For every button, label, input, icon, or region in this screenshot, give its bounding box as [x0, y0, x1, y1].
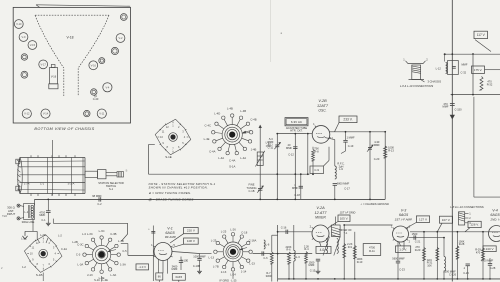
svg-text:C-1: C-1 [41, 218, 46, 222]
svg-text:S-1B: S-1B [36, 273, 43, 277]
svg-text:127 V: 127 V [419, 217, 428, 221]
svg-text:L-4A: L-4A [218, 156, 224, 160]
svg-text:R-28: R-28 [459, 242, 465, 246]
svg-text:C-25: C-25 [463, 271, 469, 275]
voltage box 1.0V [396, 246, 411, 253]
svg-text:C-4C: C-4C [205, 124, 211, 128]
wafer S-1D pointer [240, 248, 247, 250]
svg-text:L-6: L-6 [266, 243, 270, 247]
svg-text:6800 MMF: 6800 MMF [337, 181, 350, 185]
resistor R-32 470 [480, 77, 483, 91]
drum shaft and coupling [85, 171, 98, 177]
coil L-12 box with C-32 [444, 54, 446, 61]
svg-text:2-13: 2-13 [221, 270, 227, 274]
svg-text:L-8 & L-10 CONNECTIONS: L-8 & L-10 CONNECTIONS [400, 84, 434, 88]
tube location V-3 [111, 47, 118, 54]
svg-text:C-12: C-12 [288, 153, 294, 157]
tube location V-16 [89, 61, 98, 70]
tube location V-1 [120, 14, 127, 21]
svg-text:S-1E: S-1E [165, 155, 172, 159]
wire L-1 to top bus [34, 199, 36, 205]
B+ vertical line [451, 0, 453, 282]
capacitor C-16 [278, 231, 312, 233]
svg-text:IF GRID · L-25: IF GRID · L-25 [219, 278, 237, 282]
V-3 cathode lead [397, 242, 399, 259]
svg-text:B: B [126, 169, 128, 173]
oscillator bottom bus junctions [259, 199, 261, 201]
svg-text:C-23: C-23 [399, 267, 405, 271]
svg-text:MMF: MMF [462, 63, 468, 67]
capacitor C-6 [261, 251, 263, 255]
wafer S-1B top stubs [37, 239, 40, 243]
svg-text:1-4B: 1-4B [251, 148, 257, 152]
top RF bus wire [35, 198, 386, 200]
svg-text:C-20: C-20 [374, 157, 380, 161]
screen feed wire with C-21 [409, 237, 445, 239]
coil L-6 [264, 240, 265, 249]
svg-text:V-14: V-14 [43, 112, 49, 116]
svg-text:V-16: V-16 [51, 75, 57, 79]
svg-text:1-3A: 1-3A [120, 263, 126, 267]
resistor R-28 100K [456, 232, 458, 279]
svg-text:C-3B: C-3B [110, 232, 116, 236]
resistor R-10 100K [354, 232, 356, 279]
box 4700 R-11 [363, 244, 381, 256]
svg-text:C-2: C-2 [97, 202, 102, 206]
svg-text:1ST I-F GRID: 1ST I-F GRID [340, 211, 356, 215]
svg-text:V-1: V-1 [167, 227, 172, 231]
svg-text:OSC.: OSC. [318, 108, 326, 112]
wire L-1 bottom to chassis ground [32, 219, 34, 231]
voltage box 107V [440, 216, 453, 223]
svg-text:C-6: C-6 [263, 256, 268, 260]
svg-text:68 MMF: 68 MMF [92, 194, 102, 198]
svg-text:L-3C: L-3C [99, 229, 105, 233]
svg-text:R-6: R-6 [286, 248, 291, 252]
svg-text:5600 MMF: 5600 MMF [392, 257, 405, 261]
svg-text:117 V: 117 V [477, 33, 486, 37]
tube location V-6 [99, 58, 105, 64]
svg-text:L-8 & L-10 CONNECTIONS: L-8 & L-10 CONNECTIONS [450, 205, 484, 209]
sound IF block outline [473, 97, 475, 197]
svg-text:V-18: V-18 [67, 36, 74, 40]
svg-text:C-10B: C-10B [193, 264, 201, 268]
svg-text:R-11: R-11 [369, 249, 375, 253]
first IF grid top wire [410, 231, 500, 233]
voltage box 4.0V [316, 246, 331, 253]
svg-text:107 V.: 107 V. [442, 218, 451, 222]
svg-text:MMF: MMF [443, 104, 449, 108]
CRT funnel dashed outline V-18 [35, 14, 109, 16]
svg-text:R-4: R-4 [304, 247, 309, 251]
box C-9 [328, 147, 330, 161]
svg-text:V-16: V-16 [91, 63, 97, 67]
svg-text:C-28: C-28 [490, 266, 496, 270]
svg-text:L-25: L-25 [211, 239, 217, 243]
pentode V-4 [489, 226, 500, 242]
op voltage box 233V [339, 116, 357, 123]
capacitor C-18 1 MMF [300, 174, 302, 199]
svg-text:L-2: L-2 [58, 234, 62, 238]
matching transformer L-1 [24, 204, 35, 220]
svg-text:V-2A: V-2A [316, 206, 325, 210]
wafer S-1C pointer [108, 250, 116, 252]
svg-text:108 V: 108 V [187, 239, 196, 243]
svg-text:C-3: C-3 [76, 253, 81, 257]
svg-text:V-17: V-17 [41, 63, 47, 67]
svg-text:C-15: C-15 [310, 268, 316, 272]
capacitor C-15 1500 MMF [317, 242, 319, 258]
svg-text:R-20: R-20 [415, 248, 421, 252]
svg-text:S-1A: S-1A [229, 165, 235, 169]
svg-text:R-9: R-9 [348, 245, 353, 249]
svg-text:⊥ = CHASSIS GROUND: ⊥ = CHASSIS GROUND [360, 202, 389, 206]
svg-text:C-40: C-40 [93, 97, 99, 101]
svg-text:1-14: 1-14 [241, 270, 247, 274]
bus wire y=223 to wafer S-1C [53, 222, 127, 224]
capacitor C-19 1 MMF [345, 132, 347, 140]
svg-text:1000 MMF: 1000 MMF [193, 254, 206, 258]
svg-text:BOTTOM VIEW OF CHASSIS: BOTTOM VIEW OF CHASSIS [34, 127, 94, 131]
svg-text:C-19: C-19 [348, 144, 354, 148]
svg-text:220 V: 220 V [187, 229, 196, 233]
chassis ground arrow [24, 231, 26, 236]
svg-text:C-16: C-16 [281, 226, 287, 230]
wafer S-1A rotor pointer [243, 131, 251, 133]
svg-text:3 CHASSIS: 3 CHASSIS [428, 80, 442, 84]
svg-text:HTR. CKT.: HTR. CKT. [290, 128, 303, 132]
svg-text:L-7B: L-7B [213, 264, 219, 268]
svg-text:MIXER: MIXER [315, 215, 326, 219]
svg-text:L-3B: L-3B [118, 239, 124, 243]
svg-text:C-150: C-150 [454, 108, 462, 112]
svg-text:V-2: V-2 [119, 36, 123, 40]
voltage box 240V [483, 246, 496, 252]
fine tuning capacitor C-1B [258, 188, 262, 190]
mixer grid wire [253, 253, 313, 255]
svg-text:1500: 1500 [412, 232, 418, 236]
triode V-2A [312, 225, 329, 242]
RF choke L-9 with C-17 [334, 140, 336, 166]
svg-text:C-2A: C-2A [61, 247, 67, 251]
svg-text:S-1C · L-3E: S-1C · L-3E [94, 278, 108, 282]
svg-text:V-4: V-4 [105, 85, 109, 89]
svg-text:L-3A: L-3A [110, 273, 116, 277]
resistor R-31 10K AFC [436, 232, 438, 279]
L-8 L-10 connection symbol (top) [408, 63, 423, 65]
svg-text:⨁ = BRASS TUNING CORES: ⨁ = BRASS TUNING CORES [149, 197, 194, 201]
AGC top wire [445, 53, 500, 55]
long vertical feed line [277, 225, 279, 282]
tube location V-2 [116, 34, 125, 43]
mixer plate transformer T-1 [332, 225, 341, 237]
svg-text:L-9: L-9 [339, 167, 343, 171]
wire bus to T-1 [335, 217, 337, 226]
svg-text:L-7A: L-7A [24, 181, 30, 185]
svg-text:12 AT7: 12 AT7 [315, 211, 328, 215]
svg-text:L-26: L-26 [230, 227, 236, 231]
svg-text:1.0 V.: 1.0 V. [399, 247, 407, 251]
rotary wafer switch S-1E [155, 119, 191, 155]
capacitor C-1 4700 MMF with ground [47, 199, 49, 210]
svg-text:MMF: MMF [374, 143, 380, 147]
svg-text:233 V.: 233 V. [343, 117, 352, 121]
svg-text:TER: TER [2, 214, 7, 218]
svg-text:3300: 3300 [266, 274, 272, 278]
svg-text:R-10: R-10 [357, 260, 363, 264]
svg-text:175 V.: 175 V. [474, 68, 482, 72]
mixer plate resistor R-9 2.2K [343, 225, 345, 279]
svg-text:L-4B: L-4B [227, 107, 233, 111]
tube location V-12 [22, 109, 31, 118]
tube location V-10 [14, 20, 23, 29]
tube location V-7 [91, 89, 97, 95]
svg-text:2-13: 2-13 [87, 273, 93, 277]
svg-text:C-9: C-9 [314, 168, 319, 172]
resistor R-29 470 [482, 232, 484, 279]
svg-text:C-17: C-17 [344, 187, 350, 191]
svg-text:R-32: R-32 [487, 82, 493, 86]
svg-text:V-15: V-15 [30, 43, 36, 47]
svg-text:4700: 4700 [369, 246, 376, 250]
capacitor C-12 40 MMF [294, 134, 296, 200]
voltage box 108V [184, 238, 199, 244]
voltage box -1.0V [136, 264, 149, 270]
svg-text:⊕ = IRON TUNING CORES.: ⊕ = IRON TUNING CORES. [149, 191, 192, 195]
speck [281, 33, 282, 34]
svg-text:V-12: V-12 [24, 112, 30, 116]
svg-text:C-18: C-18 [241, 230, 247, 234]
page fold line [270, 0, 272, 62]
capacitor C-25 .1 [467, 255, 469, 263]
svg-text:L-4B: L-4B [240, 109, 246, 113]
tube location V-11 [97, 109, 106, 118]
trimmer capacitor C-11 [276, 134, 278, 200]
svg-text:12AT7: 12AT7 [317, 104, 329, 108]
rotary wafer switch S-1B [24, 235, 62, 273]
voltage box 220V [184, 228, 199, 234]
rotary wafer switch S-1A [227, 129, 237, 139]
svg-text:L-3A: L-3A [77, 263, 83, 267]
svg-text:1 MMF: 1 MMF [346, 136, 354, 140]
svg-text:V-10: V-10 [16, 22, 22, 26]
svg-text:S-1-A: S-1-A [68, 181, 75, 185]
svg-text:C-126: C-126 [449, 273, 457, 277]
drum left plugs [16, 159, 20, 164]
svg-text:L-3C: L-3C [87, 232, 93, 236]
triode V-2B [312, 126, 330, 144]
svg-text:L-25: L-25 [221, 229, 227, 233]
svg-text:SHOWN IN CHANNEL #13 POSIT: SHOWN IN CHANNEL #13 POSITION. [149, 186, 209, 190]
svg-text:V-9: V-9 [22, 35, 26, 39]
svg-text:L-4E: L-4E [204, 137, 210, 141]
svg-text:C-11: C-11 [268, 145, 274, 149]
svg-text:C-4B: C-4B [250, 118, 256, 122]
capacitor C-28 4700 MMF [488, 263, 492, 265]
svg-text:6AK5: 6AK5 [175, 275, 182, 279]
tube location V-14 [41, 109, 50, 118]
input blocking capacitor [152, 226, 154, 282]
tube location V-9 [19, 33, 28, 42]
svg-text:RF AMP.: RF AMP. [165, 235, 177, 239]
svg-text:C-1B: C-1B [249, 189, 255, 193]
svg-text:1-2: 1-2 [22, 265, 26, 269]
V-1 heater and cathode leads [158, 260, 160, 273]
svg-text:L-4A: L-4A [240, 156, 246, 160]
oscillator coil L-5 with slug [259, 125, 261, 199]
svg-text:L-3: L-3 [296, 255, 300, 259]
oscillator section top bus [277, 133, 306, 135]
svg-text:V-2B: V-2B [318, 99, 327, 103]
svg-text:L-4D: L-4D [214, 111, 220, 115]
resistor R-20 270 [423, 232, 425, 279]
svg-text:MMF: MMF [172, 267, 178, 271]
tube location V-15 [28, 41, 37, 50]
resistor R-13 1000 [384, 132, 386, 200]
capacitor C-150 470 MMF with arrow [450, 103, 455, 105]
svg-text:V-11: V-11 [99, 112, 105, 116]
heater box 6.3V AC [285, 118, 308, 126]
svg-text:470: 470 [476, 250, 481, 254]
svg-text:C-18: C-18 [294, 193, 300, 197]
tube location V-17 [39, 60, 48, 69]
svg-text:INPUT: INPUT [7, 212, 16, 216]
wire V-1 plate to S-1D [172, 252, 200, 254]
cathode boxes [156, 273, 163, 280]
AGC bottom wire [451, 94, 500, 96]
svg-text:MMF: MMF [292, 186, 298, 190]
svg-text:L-3: L-3 [82, 232, 86, 236]
svg-text:L-2C: L-2C [21, 237, 27, 241]
svg-text:V-3: V-3 [401, 209, 406, 213]
svg-text:2ND. I-F: 2ND. I-F [489, 217, 500, 221]
voltage box on AGC [472, 66, 485, 73]
svg-text:C-5: C-5 [122, 249, 127, 253]
svg-text:MMF: MMF [309, 263, 315, 267]
wire S-1C to V-1 grid [122, 234, 128, 241]
svg-text:L-23: L-23 [249, 262, 255, 266]
svg-text:L-13: L-13 [208, 256, 214, 260]
svg-text:4700 MMF: 4700 MMF [481, 259, 494, 263]
wire S-1E to mixer grid bus [149, 144, 155, 146]
pentode V-1 [154, 243, 172, 261]
voltage box 105V [338, 215, 350, 222]
wafer bottom stubs [42, 273, 44, 282]
svg-text:L-12: L-12 [436, 67, 442, 71]
tube V-16 side-view symbol [51, 65, 55, 68]
svg-text:C-32: C-32 [461, 71, 467, 75]
chassis bottom-view outline [13, 7, 130, 123]
svg-text:C-1: C-1 [40, 181, 45, 185]
svg-text:S-1: S-1 [109, 187, 114, 191]
voltage box 127V [416, 216, 429, 223]
IF coil L-12 with C-126 [443, 238, 445, 257]
voltage box 117V [474, 31, 488, 38]
svg-text:V-4: V-4 [492, 209, 497, 213]
svg-text:240 V: 240 V [486, 247, 495, 251]
drum pointer line [51, 140, 53, 196]
svg-text:105 V.: 105 V. [340, 216, 349, 220]
capacitor C-10B 1000 MMF [199, 254, 201, 259]
svg-text:86: 86 [158, 275, 162, 279]
svg-text:-1.0 V: -1.0 V [138, 265, 146, 269]
tube location V-5 [21, 71, 28, 78]
rotary wafer switch S-1D [228, 247, 238, 257]
svg-text:MMF: MMF [39, 213, 45, 217]
oscillator cage left edge [307, 134, 309, 175]
svg-text:C-3C: C-3C [77, 243, 83, 247]
svg-text:6.3V AC: 6.3V AC [291, 120, 303, 124]
svg-text:C-16A: C-16A [249, 239, 257, 243]
svg-text:L-2D: L-2D [40, 233, 46, 237]
capacitor C-23 5600 MMF [397, 259, 399, 262]
svg-text:128 V.: 128 V. [470, 223, 479, 227]
tuner drum body [18, 158, 20, 194]
svg-text:C-10E: C-10E [181, 259, 189, 263]
tube location V-13 [84, 110, 90, 116]
svg-text:1ST. I-F AMP.: 1ST. I-F AMP. [395, 217, 413, 221]
trimmer C-20 [369, 132, 371, 200]
voltage box 128V [468, 221, 481, 227]
coil L-3 slug tuned [293, 225, 295, 251]
pentode V-3 [393, 226, 409, 242]
svg-text:C-21: C-21 [415, 240, 421, 244]
svg-text:MMF: MMF [286, 146, 292, 150]
svg-text:R-13: R-13 [388, 148, 394, 152]
capacitor C-2 68 MMF on bus [98, 197, 100, 201]
tube location V-8 [21, 54, 27, 60]
rotary wafer switch S-1C [98, 251, 105, 258]
svg-text:L-1: L-1 [24, 210, 28, 214]
tube location V-4 [103, 83, 112, 92]
svg-text:C-4A: C-4A [229, 159, 235, 163]
svg-text:C-4A: C-4A [209, 149, 215, 153]
bottom ground bus [278, 278, 500, 280]
capacitor C-10E 3400 MMF [180, 257, 182, 261]
svg-text:10K: 10K [427, 263, 432, 267]
